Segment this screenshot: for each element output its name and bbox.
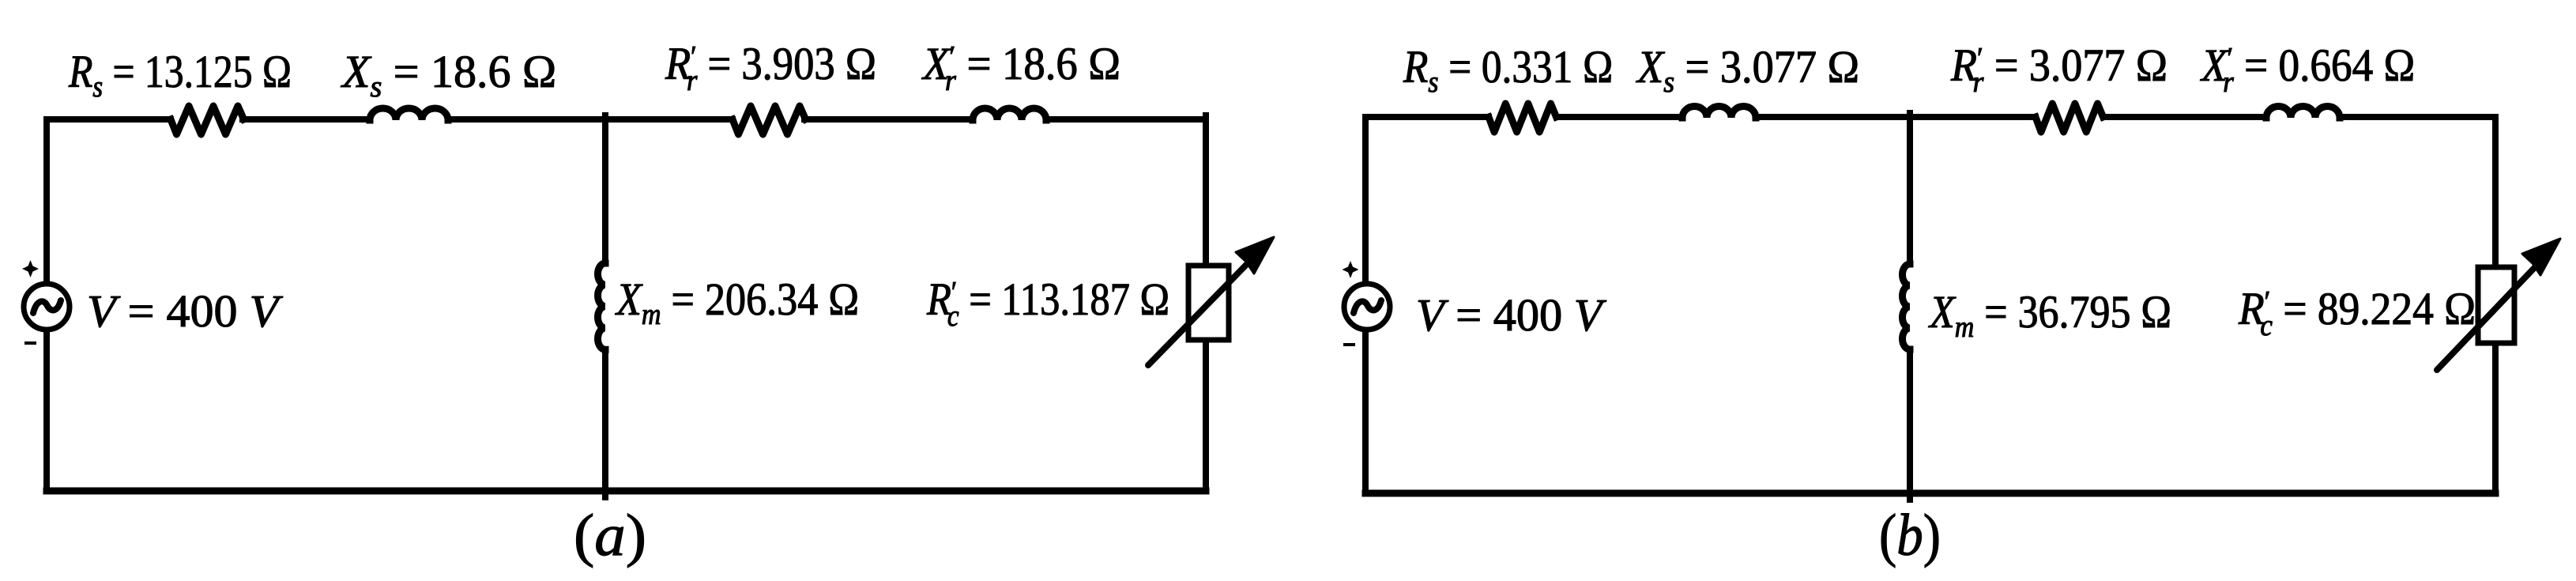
wire: (b) middle branch upper (1907, 113, 1913, 264)
source V (b) plus sparkle (1343, 261, 1359, 278)
svg-text:R′c = 89.224 Ω: R′c = 89.224 Ω (2238, 284, 2476, 341)
svg-text:V = 400 V: V = 400 V (87, 285, 283, 337)
wire: (a) top between Xs and mid node (448, 116, 733, 123)
svg-text:R′c = 113.187 Ω: R′c = 113.187 Ω (926, 274, 1169, 333)
variable resistor R'c (b) arrowhead (2522, 239, 2560, 275)
resistor R'r (a) zigzag (733, 106, 806, 134)
wire: (a) right vertical (1203, 115, 1209, 491)
svg-text:R′r = 3.077 Ω: R′r = 3.077 Ω (1950, 40, 2167, 98)
inductor Xm (a) vertical scallops (598, 263, 606, 349)
svg-text:R′r = 3.903 Ω: R′r = 3.903 Ω (665, 39, 876, 97)
svg-text:X′r = 18.6 Ω: X′r = 18.6 Ω (921, 40, 1120, 97)
wire: (a) top between Rs and Xs (243, 116, 370, 123)
inductor Xm (b) vertical scallops (1903, 264, 1911, 349)
source V (b) circle (1344, 284, 1390, 330)
source V (b) minus sign (1343, 343, 1355, 346)
inductor X'r (a) humps (973, 108, 1046, 120)
source V (a) sine glyph (33, 300, 61, 313)
wire: (b) left vertical below source (1362, 331, 1369, 493)
wire: (b) top between Rs and Xs (1557, 114, 1682, 120)
variable resistor R'c (b) arrow shaft (2437, 266, 2536, 370)
wire: (a) left vertical above source (43, 119, 50, 282)
source V (a) circle (24, 284, 70, 330)
wire: (b) top-left segment (1365, 114, 1489, 120)
source V (b) sine glyph (1354, 300, 1381, 313)
variable resistor R'c (a) arrow shaft (1148, 262, 1249, 365)
wire: (b) middle branch lower (1907, 349, 1913, 500)
inductor Xs (b) humps (1682, 107, 1756, 119)
wire: (a) top between R'r and X'r (804, 116, 973, 123)
wire: (b) top between R'r and X'r (2103, 114, 2266, 120)
variable resistor R'c (a) box (1188, 266, 1229, 340)
svg-text:V = 400 V: V = 400 V (1416, 289, 1607, 341)
resistor R'r (b) zigzag (2036, 104, 2103, 132)
wire: (a) top-left segment (47, 116, 171, 123)
inductor X'r (b) humps (2266, 107, 2340, 119)
resistor Rs (a) zigzag (171, 106, 244, 134)
svg-text:(b): (b) (1879, 504, 1941, 568)
variable resistor R'c (b) box (2478, 267, 2514, 343)
wire: (a) middle branch upper (602, 115, 608, 263)
wire: (b) top right segment to corner (2340, 114, 2495, 120)
source V (a) minus sign (24, 341, 36, 345)
svg-text:(a): (a) (574, 502, 646, 568)
wire: (b) left vertical above source (1362, 117, 1369, 284)
wire: (a) top right segment to corner (1046, 116, 1206, 123)
wire: (a) left vertical below source (43, 331, 50, 491)
inductor Xs (a) humps (370, 108, 448, 120)
resistor Rs (b) zigzag (1489, 104, 1557, 132)
wire: (b) bottom (1365, 490, 2495, 497)
wire: (a) bottom (47, 488, 1206, 495)
wire: (b) top between Xs and mid node (1756, 114, 2036, 120)
source V (a) plus sparkle (22, 260, 39, 277)
variable resistor R'c (a) arrowhead (1236, 237, 1274, 274)
wire: (a) middle branch lower (602, 349, 608, 497)
wire: (b) right vertical (2492, 117, 2499, 493)
svg-text:X′r = 0.664 Ω: X′r = 0.664 Ω (2200, 40, 2415, 98)
